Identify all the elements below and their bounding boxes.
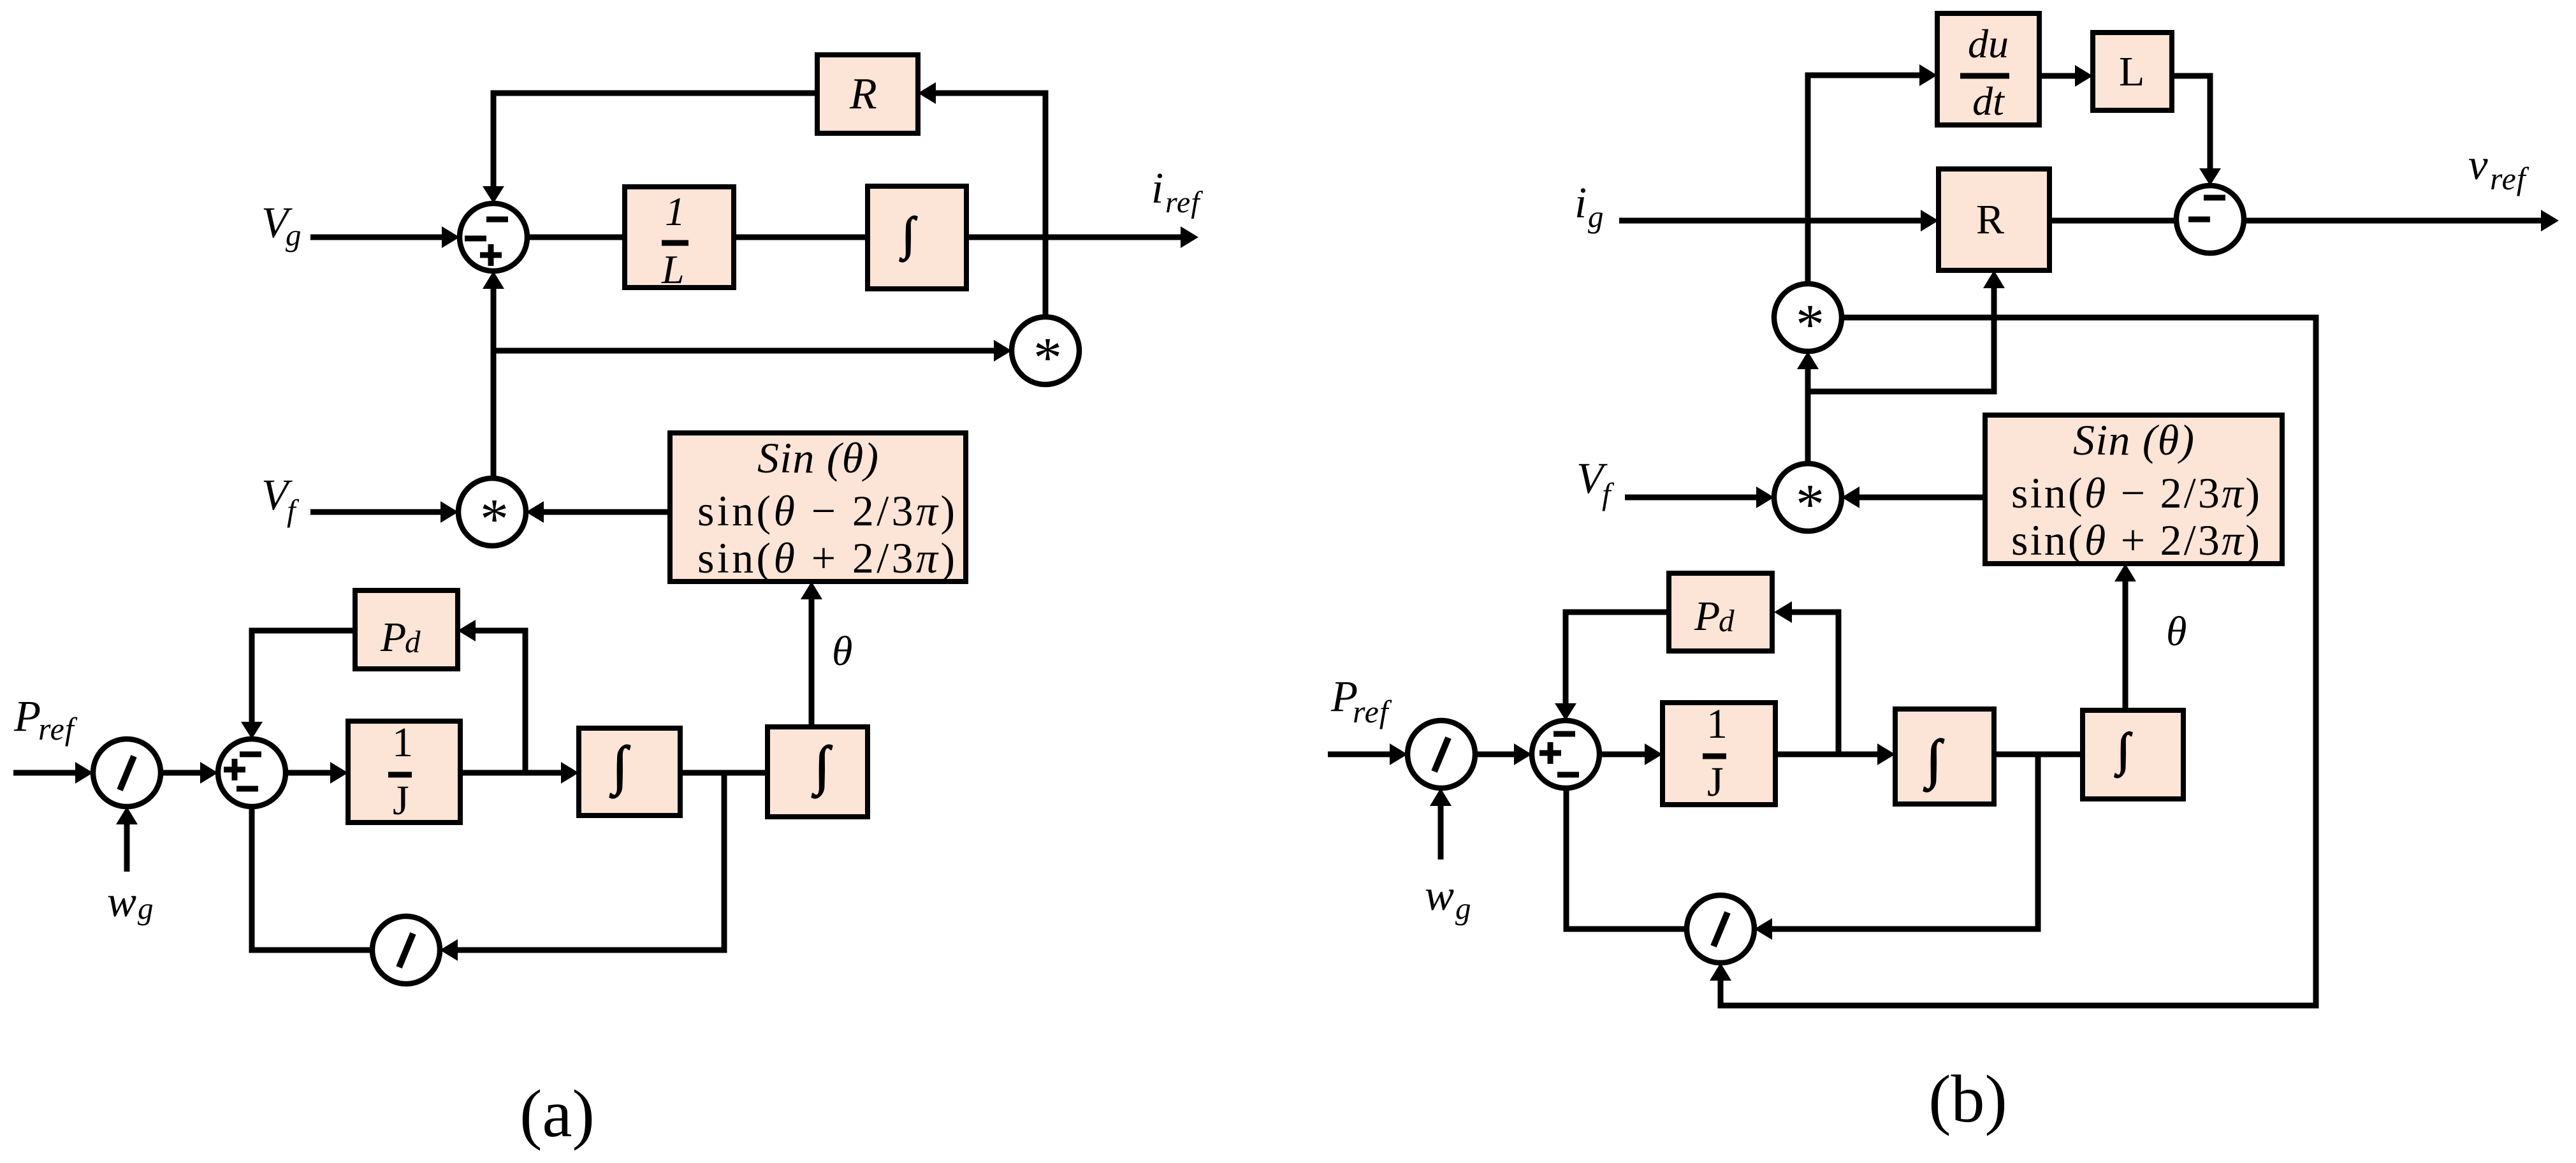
svg-text:sin(θ − 2/3π): sin(θ − 2/3π)	[697, 486, 955, 535]
svg-text:(a): (a)	[520, 1076, 595, 1151]
wire Vg input	[310, 235, 443, 240]
summing junction S2 (a lower)	[218, 739, 286, 807]
arrow into P_d right (a)	[458, 620, 476, 641]
wire integrator to output	[966, 235, 1182, 240]
svg-text:P: P	[380, 614, 406, 661]
wire M4 output up to M3	[1805, 369, 1811, 464]
arrow output i_ref	[1181, 226, 1198, 248]
wire I1 to I2	[680, 770, 768, 776]
svg-text:i: i	[1151, 164, 1163, 212]
sin lookup block (b)	[1985, 415, 2282, 564]
wire vertical multiplier M3 to du/dt corner	[1805, 73, 1811, 285]
wire w_g arrow shaft (a)	[124, 823, 130, 872]
arrow into M4 right	[1842, 486, 1859, 508]
svg-text:∫: ∫	[1923, 729, 1944, 792]
svg-text:L: L	[661, 247, 685, 292]
sign plus left in S4	[1539, 750, 1561, 756]
wire V_f input (b)	[1625, 495, 1756, 501]
wire P_d tap vertical (a)	[523, 628, 528, 773]
divider D1 (a input)	[93, 739, 161, 807]
svg-text:d: d	[1719, 603, 1735, 638]
wire w_g arrow shaft (b)	[1438, 805, 1444, 859]
arrow into M4 left	[1756, 486, 1774, 508]
svg-text:g: g	[138, 891, 154, 926]
summing junction S3 (b output)	[2176, 186, 2244, 253]
wire sin table to M4	[1858, 495, 1985, 501]
wire P_ref input (b)	[1328, 752, 1391, 757]
wire P_d tap vertical (b)	[1836, 610, 1842, 755]
wire 1/L to integrator	[734, 235, 868, 240]
arrow into L left	[2075, 65, 2093, 87]
sign minus bottom in S2	[236, 786, 258, 792]
svg-text:g: g	[1588, 199, 1604, 234]
arrow into M2 left	[440, 501, 458, 523]
wire far-right vertical	[2313, 318, 2319, 1009]
sign plus left in S2	[224, 767, 245, 773]
svg-text:*: *	[480, 488, 509, 551]
svg-text:θ: θ	[832, 628, 852, 675]
wire S1 to 1/L	[527, 235, 625, 240]
wire P_ref input (a)	[13, 770, 76, 776]
divider D4 (b feedback)	[1687, 895, 1754, 963]
svg-text:*: *	[1796, 473, 1824, 536]
svg-text:w: w	[1425, 871, 1454, 919]
wire D1 to S2	[161, 770, 201, 776]
svg-text:L: L	[2119, 48, 2144, 95]
wire P_d tap horizontal (b)	[1791, 610, 1838, 615]
svg-text:v: v	[2468, 140, 2488, 189]
svg-text:∫: ∫	[899, 208, 917, 262]
svg-text:g: g	[286, 217, 302, 252]
svg-text:d: d	[405, 624, 421, 659]
arrow up into S1 bottom	[483, 271, 504, 289]
summing junction S4 (b lower)	[1532, 720, 1599, 788]
wire M3 right to far-right vertical	[1841, 315, 2319, 321]
gain block 1/J (a)	[348, 721, 460, 823]
arrow into du/dt left	[1919, 64, 1937, 86]
wire P_d left to S4 top (b)	[1563, 610, 1670, 615]
wire L to corner and down to S3	[2172, 73, 2213, 79]
arrow into summing junction S1 left	[442, 226, 460, 248]
wire lower feedback horizontal to D2 (a)	[456, 947, 727, 953]
arrow into D2 right (a)	[440, 939, 458, 961]
wire lower feedback vertical from I1-I2 line (a)	[722, 773, 727, 953]
arrow into R right side	[918, 82, 936, 104]
svg-text:sin(θ − 2/3π): sin(θ − 2/3π)	[2011, 469, 2260, 517]
gain block 1/L	[625, 187, 734, 288]
wire lower feedback horizontal to D4 (b)	[1771, 926, 2041, 932]
wire vertical from multiplier M1 up to R feedback	[1043, 91, 1049, 318]
resistor block R (b)	[1939, 169, 2049, 270]
wire S3 to output	[2244, 218, 2542, 224]
inductance block L	[2093, 33, 2172, 110]
svg-text:θ: θ	[2166, 608, 2187, 655]
svg-text:P: P	[1694, 593, 1720, 640]
arrow up into D1 bottom	[116, 807, 138, 824]
wire bottom loop horizontal (b)	[1718, 1003, 2317, 1009]
svg-text:sin(θ + 2/3π): sin(θ + 2/3π)	[2011, 516, 2260, 564]
arrow into S4 left	[1514, 743, 1532, 765]
wire D3 to S4	[1475, 752, 1515, 757]
arrow into M1 left	[994, 340, 1012, 362]
svg-text:∫: ∫	[2114, 724, 2132, 778]
wire S2 to 1/J	[286, 770, 331, 776]
gain block 1/J (b)	[1663, 703, 1775, 805]
wire S4 to 1/J (b)	[1599, 752, 1646, 757]
svg-text:sin(θ + 2/3π): sin(θ + 2/3π)	[697, 534, 955, 582]
integrator block (a upper)	[868, 186, 966, 289]
arrow into R (b) left	[1921, 210, 1939, 231]
divider D3 (b input)	[1408, 720, 1475, 788]
wire P_d tap horizontal (a)	[474, 628, 525, 634]
wire branch to multiplier M1	[493, 348, 995, 354]
wire lower feedback vertical (b)	[2035, 754, 2041, 932]
wire R feedback horizontal	[491, 91, 818, 96]
svg-text:1: 1	[392, 719, 413, 766]
arrow theta up into sin block bottom (b)	[2114, 564, 2136, 581]
svg-text:*: *	[1796, 293, 1824, 356]
svg-text:i: i	[1575, 179, 1587, 227]
arrow down into S3 top	[2199, 168, 2221, 186]
svg-text:du: du	[1968, 21, 2009, 66]
arrow into I3 left	[1877, 743, 1895, 765]
sign plus bottom in S1	[480, 252, 502, 258]
arrow down into S4 top	[1555, 703, 1576, 720]
arrow into D4 right (b)	[1754, 918, 1772, 940]
integrator I4 (b)	[2083, 710, 2183, 799]
sign minus top in S1	[486, 217, 508, 223]
multiplier M3 (b upper)	[1774, 284, 1842, 351]
wire theta vertical (b)	[2123, 581, 2128, 710]
arrow into divider D1 left	[75, 762, 93, 784]
svg-text:J: J	[1707, 759, 1724, 805]
sign minus top in S4	[1554, 731, 1575, 737]
wire S1 bottom stem down to M2	[491, 289, 497, 479]
svg-text:P: P	[13, 692, 41, 740]
svg-text:g: g	[1455, 891, 1471, 926]
wire R to S3	[2049, 218, 2176, 224]
svg-text:∫: ∫	[609, 736, 630, 798]
sin lookup block (a)	[670, 433, 966, 581]
arrow into divider D3 left	[1390, 743, 1408, 765]
multiplier M4 (b, Vf)	[1774, 464, 1842, 531]
wire theta vertical (a)	[809, 599, 815, 727]
svg-text:*: *	[1033, 326, 1062, 390]
svg-text:ref: ref	[2490, 161, 2529, 196]
arrow into I1 left	[561, 762, 579, 784]
wire du/dt to L	[2039, 73, 2075, 79]
svg-text:∫: ∫	[811, 736, 833, 798]
arrow into 1/J left	[330, 762, 348, 784]
svg-text:1: 1	[1706, 701, 1728, 747]
resistor block R (a)	[817, 55, 918, 133]
arrow into 1/J (b) left	[1645, 743, 1663, 765]
sign minus top in S2	[240, 752, 261, 757]
damping block P_d (a)	[355, 590, 458, 669]
arrow down into S1 top	[483, 186, 504, 203]
integrator I3 (b)	[1895, 709, 1994, 804]
divider D2 (a feedback)	[372, 916, 440, 984]
svg-text:1: 1	[665, 189, 685, 234]
sign minus bottom in S4	[1557, 772, 1579, 778]
arrow into S2 left	[200, 762, 218, 784]
wire from vertical to R	[935, 91, 1045, 96]
arrow into P_d right (b)	[1774, 601, 1792, 623]
arrow down into S2 top	[241, 722, 263, 739]
wire P_d left to S2 top (a)	[249, 628, 356, 634]
wire R feedback vertical down to S1	[491, 93, 497, 188]
svg-text:ref: ref	[1353, 694, 1392, 729]
arrow up into M3 bottom	[1797, 351, 1819, 369]
svg-text:dt: dt	[1972, 78, 2005, 124]
svg-text:Sin (θ): Sin (θ)	[2073, 416, 2194, 464]
multiplier M1 (a right)	[1012, 317, 1079, 384]
damping block P_d (b)	[1669, 573, 1772, 651]
arrow into M2 right	[526, 501, 544, 523]
wire D2 left to S2 bottom (a)	[249, 947, 373, 953]
sign minus top in S3	[2204, 195, 2225, 201]
wire i_g input	[1619, 218, 1921, 224]
svg-text:R: R	[1976, 196, 2004, 243]
derivative block du/dt	[1937, 13, 2039, 125]
arrow theta up into sin block bottom	[801, 581, 822, 599]
arrow up into D3 bottom	[1430, 788, 1452, 806]
svg-text:ref: ref	[38, 711, 78, 747]
svg-text:(b): (b)	[1928, 1062, 2007, 1136]
wire 1/J to integrator I3 (b)	[1775, 752, 1879, 757]
wire I3 to I4	[1994, 752, 2083, 757]
svg-text:w: w	[107, 877, 136, 926]
sign minus left in S1	[465, 236, 486, 242]
sign minus left in S3	[2188, 217, 2210, 223]
svg-text:J: J	[393, 777, 409, 824]
svg-text:Sin (θ): Sin (θ)	[757, 434, 878, 482]
svg-text:R: R	[849, 69, 877, 119]
multiplier M2 (a, Vf)	[458, 478, 526, 546]
arrow up into D4 bottom	[1710, 963, 1731, 981]
wire sin table to M2	[542, 509, 670, 515]
wire branch from M4 stem to R bottom	[1805, 389, 1995, 395]
svg-text:ref: ref	[1165, 186, 1203, 219]
wire 1/J to integrator I1	[460, 770, 562, 776]
arrow up into R (b) bottom	[1983, 270, 2005, 288]
wire D4 left to S4 bottom (b)	[1564, 926, 1687, 932]
wire Vf input	[310, 509, 442, 515]
arrow output v_ref	[2541, 210, 2559, 231]
integrator I2 (a)	[768, 727, 868, 817]
wire bottom loop up into D4 (b)	[1718, 979, 1724, 1009]
summing junction S1	[460, 203, 527, 271]
wire corner to du/dt	[1805, 73, 1920, 78]
integrator I1 (a)	[579, 728, 680, 816]
